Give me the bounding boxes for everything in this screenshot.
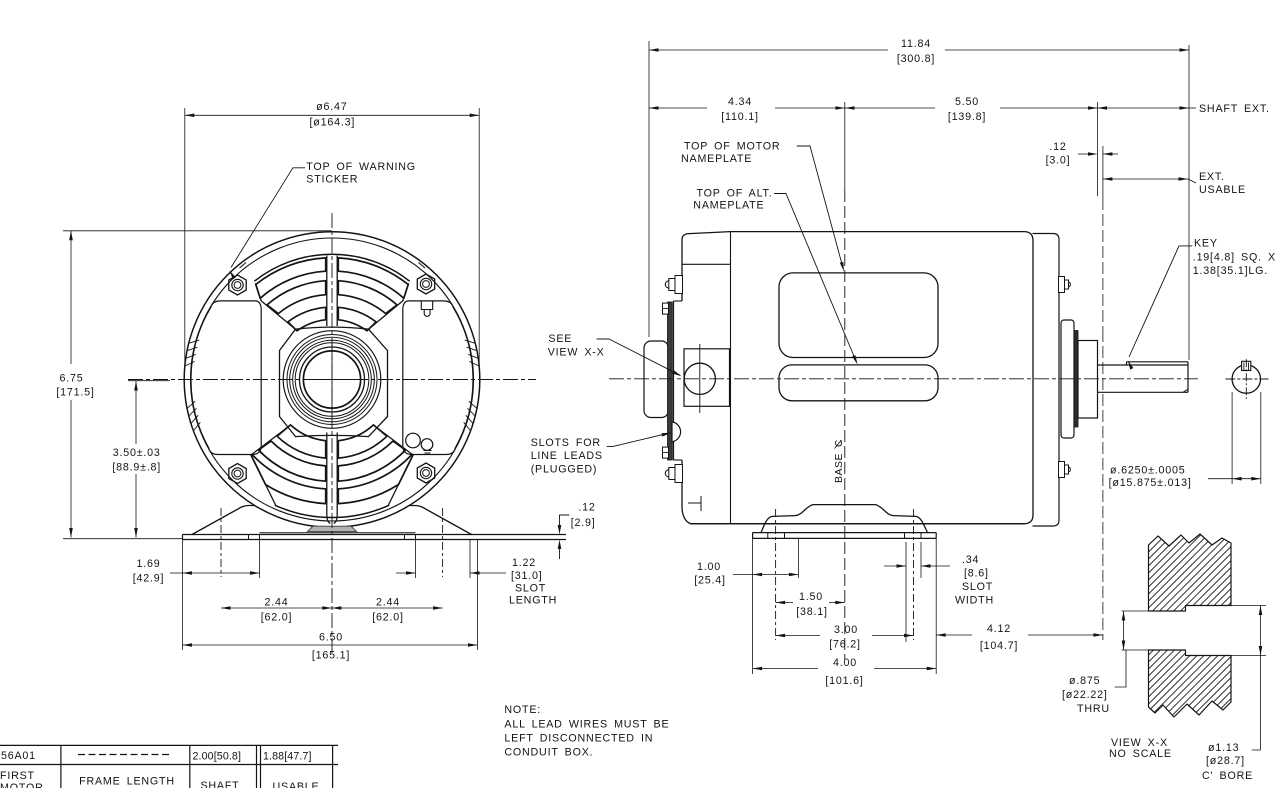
side view: bracket bottom drip notch — [688, 502, 701, 504]
side view: bearing hub step 2 dark — [1074, 331, 1078, 428]
dimension line 1.00 — [733, 574, 798, 576]
svg-text:VIEW X-X: VIEW X-X — [548, 346, 605, 358]
leader see view x-x — [597, 338, 609, 340]
front view: foot plate strip — [183, 534, 567, 536]
svg-text:6.75: 6.75 — [59, 373, 83, 385]
front view: bottom sector left edges — [251, 427, 288, 506]
front view: drain plug circles bottom right — [406, 433, 421, 448]
svg-text:1.88[47.7]: 1.88[47.7] — [263, 751, 312, 763]
front view: foot back edge line — [260, 532, 416, 534]
side view: lead slot plugged — [672, 422, 681, 442]
side view: foot plate strip — [753, 532, 937, 534]
svg-text:NAMEPLATE: NAMEPLATE — [693, 200, 764, 212]
front view: top sector left side edge — [261, 301, 295, 329]
front view: foot slot centrelines dashed — [220, 508, 222, 577]
svg-text:[25.4]: [25.4] — [694, 575, 726, 587]
svg-text:CONDUIT BOX.: CONDUIT BOX. — [504, 747, 593, 759]
front view: inner rim circle — [191, 238, 474, 521]
svg-text:[165.1]: [165.1] — [312, 650, 350, 662]
shaft end view: keyway and key — [1242, 361, 1251, 370]
svg-text:[2.9]: [2.9] — [571, 517, 596, 529]
svg-text:SLOTS FOR: SLOTS FOR — [531, 437, 601, 449]
front view: bottom vent sector outline arc — [275, 505, 388, 517]
dimension 3.50 ext segment — [128, 380, 170, 382]
side view: bracket left face and steps — [681, 264, 683, 301]
dimension ext lines dia 6.47 — [184, 108, 186, 368]
dimension ext lines base bottom — [182, 540, 184, 651]
front view: warning sticker tick marks — [240, 263, 247, 269]
dimension shaft ext segment — [1098, 107, 1190, 109]
svg-text:TOP OF WARNING: TOP OF WARNING — [306, 161, 416, 173]
svg-text:NOTE:: NOTE: — [504, 704, 541, 716]
side view: shaft key — [1127, 361, 1189, 363]
svg-text:2.00[50.8]: 2.00[50.8] — [193, 751, 242, 763]
front view: small bolt on right panel top — [421, 301, 432, 310]
front view: vertical centreline — [331, 213, 333, 655]
svg-text:5.50: 5.50 — [955, 96, 979, 108]
svg-text:NAMEPLATE: NAMEPLATE — [681, 153, 752, 165]
side view: foot slot ticks — [767, 533, 769, 539]
svg-text:[3.0]: [3.0] — [1046, 155, 1071, 167]
front view: motor end shell outer circle — [184, 232, 480, 528]
dimension line 4.00 — [753, 668, 818, 670]
svg-text:USABLE: USABLE — [273, 781, 320, 788]
svg-text:ø6.47: ø6.47 — [316, 101, 347, 113]
dimension line 1.22 slot length — [396, 572, 416, 574]
side view: motor body outline — [682, 232, 1033, 524]
svg-text:1.69: 1.69 — [136, 558, 160, 570]
svg-text:SHAFT EXT.: SHAFT EXT. — [1199, 103, 1270, 115]
svg-text:(PLUGGED): (PLUGGED) — [531, 464, 598, 476]
dimension .12 foot thickness — [560, 514, 570, 516]
svg-text:LENGTH: LENGTH — [509, 595, 557, 607]
front view: bottom vent slots — [277, 425, 326, 458]
svg-text:4.00: 4.00 — [833, 657, 857, 669]
svg-text:NO SCALE: NO SCALE — [1109, 748, 1172, 760]
side view: foot slot centrelines — [775, 509, 777, 640]
dimension line 3.50 — [135, 381, 137, 444]
svg-text:SLOT: SLOT — [515, 583, 546, 595]
svg-text:4.34: 4.34 — [728, 96, 752, 108]
side view: guard top nut — [663, 303, 669, 314]
svg-text:[101.6]: [101.6] — [825, 675, 863, 687]
svg-text:FIRST: FIRST — [0, 770, 35, 782]
side view: conduit box — [684, 349, 730, 407]
svg-text:[76.2]: [76.2] — [829, 639, 861, 651]
svg-text:[ø164.3]: [ø164.3] — [309, 117, 355, 129]
side view: fan guard plate dark band — [668, 302, 673, 460]
svg-text:1.38[35.1]LG.: 1.38[35.1]LG. — [1193, 265, 1268, 277]
svg-text:[139.8]: [139.8] — [948, 111, 986, 123]
front view: hub concentric rings — [283, 331, 381, 429]
svg-text:LEFT DISCONNECTED IN: LEFT DISCONNECTED IN — [504, 733, 653, 745]
svg-text:3.00: 3.00 — [834, 624, 858, 636]
dimension line 1.69 — [170, 572, 183, 574]
front view: top centre rib lines — [326, 256, 328, 326]
dimension line 11.84 — [649, 49, 888, 51]
svg-text:.12: .12 — [578, 501, 595, 513]
svg-text:2.44: 2.44 — [264, 597, 288, 609]
view x-x: hatching upper — [939, 530, 1280, 615]
svg-text:[8.6]: [8.6] — [964, 568, 989, 580]
side view: conduit knockout circle — [684, 363, 715, 394]
side view: end plate top bolt — [1059, 277, 1065, 293]
side view: bearing hub step 3 — [1078, 341, 1098, 419]
dimension ext usable — [1103, 178, 1189, 180]
svg-text:1.50: 1.50 — [799, 591, 823, 603]
dimension .12 shaft — [1097, 102, 1099, 196]
svg-text:LINE LEADS: LINE LEADS — [531, 450, 603, 462]
front view: top vent slots — [338, 258, 408, 298]
svg-text:SHAFT: SHAFT — [200, 780, 239, 788]
dimension line dia 6.47 — [185, 114, 479, 116]
leader slots for line leads — [607, 445, 613, 447]
side view: guard top bolt — [675, 276, 683, 294]
svg-text:6.50: 6.50 — [319, 632, 343, 644]
front view: top sector right corner connector — [403, 283, 409, 301]
shaft end view: vertical centreline — [1245, 359, 1247, 399]
svg-text:ø1.13: ø1.13 — [1208, 742, 1239, 754]
svg-text:2.44: 2.44 — [376, 597, 400, 609]
svg-text:EXT.: EXT. — [1199, 171, 1225, 183]
side view: end plate ring right — [1033, 234, 1059, 527]
svg-text:FRAME LENGTH: FRAME LENGTH — [79, 776, 175, 788]
side view: shaft — [1098, 364, 1189, 366]
front view: corner hex bolts with washers — [229, 275, 246, 295]
svg-text:[171.5]: [171.5] — [56, 387, 94, 399]
front view: bottom centre rib lines — [327, 433, 330, 523]
view x-x: hatching lower — [939, 645, 1280, 725]
front view: right sticker panel — [403, 301, 473, 455]
shaft end view: horizontal centreline — [1225, 378, 1268, 380]
svg-text:.19[4.8] SQ. X: .19[4.8] SQ. X — [1193, 252, 1276, 264]
shaft end view: dia dimension ext lines — [1231, 392, 1233, 484]
front view: base gusset left — [192, 506, 254, 535]
svg-text:WIDTH: WIDTH — [955, 595, 994, 607]
svg-text:1.00: 1.00 — [697, 561, 721, 573]
svg-text:[62.0]: [62.0] — [372, 612, 404, 624]
side view: alternate nameplate — [779, 365, 938, 401]
front view: drain boss shadow at base centre — [308, 526, 357, 531]
svg-text:[300.8]: [300.8] — [897, 53, 935, 65]
front view: hub octagon boss — [280, 327, 388, 437]
side view: base bracket — [761, 505, 928, 533]
front view: horizontal centreline — [128, 379, 536, 381]
svg-text:[110.1]: [110.1] — [721, 111, 759, 123]
svg-text:ø.6250±.0005: ø.6250±.0005 — [1110, 465, 1185, 477]
svg-text:TOP OF ALT.: TOP OF ALT. — [697, 188, 773, 200]
side view: bracket cap lines top left — [730, 232, 732, 524]
svg-text:ALL LEAD WIRES MUST BE: ALL LEAD WIRES MUST BE — [504, 719, 669, 731]
front view: top sector left corner connector — [255, 283, 261, 301]
side view: fan guard hub cover — [644, 341, 669, 418]
shaft end view: circle — [1232, 365, 1260, 393]
side view: bearing hub step 1 — [1061, 320, 1074, 438]
side view: end plate bottom bolt — [1059, 462, 1065, 478]
svg-text:[38.1]: [38.1] — [796, 606, 828, 618]
front view: left sticker panel — [191, 301, 261, 455]
svg-text:1.22: 1.22 — [512, 557, 536, 569]
dimension line 2.44 left — [221, 607, 332, 609]
svg-text:ø.875: ø.875 — [1069, 675, 1100, 687]
dimension line 4.12 — [936, 634, 972, 636]
svg-text:[ø28.7]: [ø28.7] — [1206, 755, 1245, 767]
svg-text:SLOT: SLOT — [962, 581, 993, 593]
dimension line 3.00 — [776, 635, 820, 637]
svg-text:[104.7]: [104.7] — [980, 640, 1018, 652]
side view: horizontal centreline — [609, 378, 1198, 380]
svg-text:TOP OF MOTOR: TOP OF MOTOR — [684, 141, 780, 153]
svg-text:.12: .12 — [1049, 141, 1066, 153]
dimension line 4.34 and 5.50 chain — [649, 107, 707, 109]
dimension line 2.44 right — [332, 607, 443, 609]
front view: bottom sector right edges — [376, 427, 413, 506]
front view: foot slot edge ticks — [248, 535, 250, 540]
view x-x: bore dimension 1.13 — [1231, 605, 1266, 607]
side view: motor nameplate — [779, 273, 938, 358]
svg-text:[ø22.22]: [ø22.22] — [1062, 689, 1108, 701]
svg-text:.34: .34 — [962, 554, 979, 566]
front view: base gusset right — [410, 506, 472, 535]
view x-x: bore dimension .875 — [1122, 610, 1149, 612]
svg-text:[ø15.875±.013]: [ø15.875±.013] — [1109, 477, 1192, 489]
front view: top sector right side edge — [369, 301, 403, 329]
svg-text:MOTOR: MOTOR — [0, 782, 44, 788]
dimension 6.75 ext top line — [63, 230, 332, 232]
svg-text:56A01: 56A01 — [1, 750, 36, 762]
svg-text:3.50±.03: 3.50±.03 — [113, 447, 161, 459]
dimension .34 slot width — [884, 565, 906, 567]
svg-text:[62.0]: [62.0] — [261, 612, 293, 624]
svg-text:[88.9±.8]: [88.9±.8] — [112, 462, 161, 474]
svg-text:BASE: BASE — [833, 453, 845, 483]
front view: hub cross centre marks — [331, 340, 333, 419]
svg-text:KEY: KEY — [1194, 238, 1218, 250]
leader key — [1179, 245, 1192, 247]
leader top of warning sticker — [293, 167, 305, 169]
leader top of alt nameplate — [775, 193, 787, 195]
side view: body bottom edge — [691, 523, 1025, 525]
dimension line 6.75 — [70, 231, 72, 364]
svg-text:[31.0]: [31.0] — [511, 570, 543, 582]
svg-text:11.84: 11.84 — [901, 38, 931, 50]
side view: base centreline — [844, 102, 846, 190]
dimension line 1.50 — [776, 602, 793, 604]
front view: rim hatch ticks — [465, 340, 475, 343]
svg-text:STICKER: STICKER — [306, 174, 358, 186]
svg-text:C' BORE: C' BORE — [1202, 770, 1253, 782]
svg-text:SEE: SEE — [548, 333, 572, 345]
svg-text:[42.9]: [42.9] — [133, 573, 165, 585]
svg-text:4.12: 4.12 — [987, 623, 1011, 635]
dimension line 6.50 — [183, 644, 478, 646]
leader top of motor nameplate — [797, 145, 810, 147]
view x-x: hatched block outline — [1149, 534, 1232, 611]
svg-text:THRU: THRU — [1077, 703, 1110, 715]
side view: guard bottom nut — [663, 447, 669, 458]
dimension ext lines 11.84 — [648, 41, 650, 337]
side dimension ext lines bottom — [752, 538, 754, 674]
svg-text:USABLE: USABLE — [1199, 184, 1246, 196]
shaft end view: dia dimension line — [1208, 478, 1232, 480]
side view: guard bottom bolt — [675, 465, 683, 483]
table: frame data grid lines — [0, 744, 338, 746]
front view: top vent sector outline arc — [255, 254, 409, 281]
svg-text:C: C — [834, 440, 845, 447]
